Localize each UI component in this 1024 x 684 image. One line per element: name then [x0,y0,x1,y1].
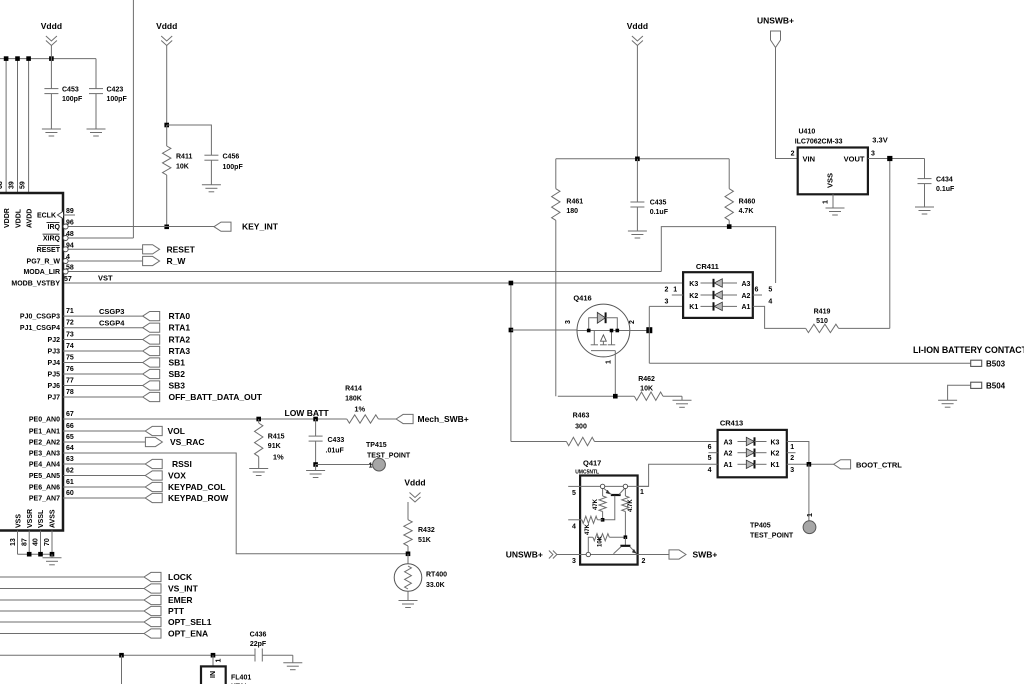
svg-text:76: 76 [66,366,74,373]
svg-text:A2: A2 [742,293,751,300]
svg-text:VDDL: VDDL [15,208,22,228]
resistor R463 [511,441,567,443]
wire VSS [17,531,19,555]
wire XIRQ net [63,237,133,239]
svg-text:RT400: RT400 [426,572,447,579]
svg-text:PJ3: PJ3 [48,349,61,356]
svg-text:SB3: SB3 [169,381,186,391]
svg-text:OPT_ENA: OPT_ENA [168,629,208,639]
svg-text:PE4_AN4: PE4_AN4 [29,462,60,469]
junction R460 [727,224,732,229]
svg-text:RTA0: RTA0 [169,311,191,321]
svg-text:Vddd: Vddd [627,21,648,31]
svg-text:2: 2 [790,455,794,462]
net flag SWB+ [669,550,686,559]
wire VDDR drop [5,59,7,193]
svg-text:Vddd: Vddd [156,21,177,31]
net flag R_W [63,260,143,262]
svg-text:ECLK: ECLK [37,213,56,220]
svg-text:IN: IN [210,671,217,678]
svg-text:4: 4 [708,467,712,474]
ground under C423 [87,128,106,130]
net flag KEYPAD_ROW [63,497,145,499]
svg-text:22pF: 22pF [250,641,267,648]
svg-text:51K: 51K [418,537,431,544]
svg-text:LOW BATT: LOW BATT [285,408,330,418]
resistor R411 [166,125,168,146]
svg-text:5: 5 [708,455,712,462]
svg-text:R463: R463 [573,412,590,419]
svg-text:65: 65 [66,434,74,441]
net flag VOX [63,475,145,477]
wire to C456 [167,125,212,155]
diode CR413 element [738,463,747,465]
svg-text:1: 1 [823,200,830,204]
svg-text:R462: R462 [638,376,655,383]
svg-text:RTA2: RTA2 [169,335,191,345]
wire Q416 pin2 [630,330,650,332]
svg-text:67: 67 [66,411,74,418]
svg-text:70: 70 [44,538,51,546]
svg-text:4.7K: 4.7K [628,499,634,512]
Q417 transistor T2 [624,537,626,545]
wire IRQ to KEY_INT [63,226,214,228]
wire bottom crystal net [0,654,255,656]
resistor R462 [558,395,635,397]
svg-text:TP415: TP415 [366,442,387,449]
ground under C435 [628,230,647,232]
svg-text:VOUT: VOUT [844,155,865,164]
svg-text:PE1_AN1: PE1_AN1 [29,429,60,436]
capacitor C434 [924,159,926,179]
svg-text:62: 62 [66,468,74,475]
svg-text:Vddd: Vddd [41,21,62,31]
svg-text:KEYPAD_COL: KEYPAD_COL [168,482,225,492]
net flag VS_INT [0,588,144,590]
svg-text:3: 3 [572,558,576,565]
svg-text:R411: R411 [176,154,192,161]
svg-text:K3: K3 [771,439,780,446]
svg-text:63: 63 [66,456,74,463]
svg-text:C456: C456 [223,154,240,161]
svg-text:VOL: VOL [168,426,185,436]
svg-text:C453: C453 [62,87,79,94]
svg-text:BOOT_CTRL: BOOT_CTRL [856,460,902,469]
resistor R432 [404,520,412,546]
svg-text:VSS: VSS [826,173,835,188]
svg-text:100pF: 100pF [62,96,83,103]
svg-text:PJ2: PJ2 [48,337,61,344]
svg-text:100pF: 100pF [223,164,244,171]
svg-text:VDDR: VDDR [4,208,11,228]
wire A1 to Q417 pin1 [638,464,718,486]
wire FL401 pin1 [212,655,214,666]
svg-text:TP405: TP405 [750,523,771,530]
svg-text:PJ6: PJ6 [48,383,61,390]
svg-text:1: 1 [369,463,373,470]
svg-text:ILC7062CM-33: ILC7062CM-33 [795,139,843,146]
svg-text:RSSI: RSSI [172,459,192,469]
wire PE3 temp sense [63,453,408,554]
svg-text:PG7_R_W: PG7_R_W [27,259,61,266]
net flag OPT_SEL1 [0,621,144,623]
pin bubbles [63,224,68,229]
junction FL401 [211,653,216,658]
svg-text:CSGP3: CSGP3 [99,307,124,316]
wire to TP405 [808,464,810,520]
wire UNSWB+ to VIN [776,48,798,159]
svg-text:PE0_AN0: PE0_AN0 [29,417,60,424]
ground under U410 [826,207,845,209]
net flag PTT [0,610,144,612]
svg-text:UNSWB+: UNSWB+ [506,550,543,560]
diode array CR413 [718,430,787,477]
svg-text:LOCK: LOCK [168,572,193,582]
svg-text:4: 4 [768,298,772,305]
svg-text:89: 89 [66,208,74,215]
svg-text:CR413: CR413 [720,419,743,428]
svg-text:13: 13 [10,538,17,546]
svg-text:3: 3 [565,320,572,324]
svg-text:5: 5 [768,287,772,294]
svg-text:A3: A3 [724,439,733,446]
Q416 channel [593,331,595,345]
wire AVDD drop [28,59,30,193]
ground under B504 [938,399,957,401]
net flag RSSI [63,463,145,465]
junction bottom left [119,653,124,658]
junction R411 top [164,123,169,128]
svg-text:1: 1 [606,360,613,364]
pin ECLK [63,214,75,216]
svg-text:RESET: RESET [37,247,61,254]
svg-text:73: 73 [66,332,74,339]
svg-text:PE2_AN2: PE2_AN2 [29,440,60,447]
wire K1 horizontal [649,305,683,307]
wire drop to edge [121,655,123,684]
ground IC [51,554,53,558]
ground right of R462 [681,396,683,400]
svg-text:A3: A3 [742,281,751,288]
svg-text:R461: R461 [566,199,583,206]
svg-text:39: 39 [9,181,16,189]
svg-text:100pF: 100pF [107,96,128,103]
net flag LOCK [0,576,144,578]
svg-text:Vddd: Vddd [404,478,425,488]
test point TP405 [803,521,816,534]
wire to Q416 pin3 [511,329,577,331]
svg-text:C423: C423 [107,87,124,94]
svg-text:1%: 1% [273,453,284,462]
Q417 transistor T1 [611,494,621,496]
junction C433 bottom [313,462,318,467]
svg-text:R414: R414 [345,386,362,393]
Q417 pin5 stub [568,485,580,487]
svg-text:OPT_SEL1: OPT_SEL1 [168,617,212,627]
Q417 pin4 stub [568,519,582,521]
resistor R419 [806,324,839,332]
junction R415 top [256,417,261,422]
svg-text:PE6_AN6: PE6_AN6 [29,485,60,492]
svg-text:PJ7: PJ7 [48,395,61,402]
net flag VOL [63,430,145,432]
Q416 pin1 wire [614,351,616,397]
svg-text:SB2: SB2 [169,369,186,379]
svg-text:1: 1 [640,489,644,496]
IC U401 microcontroller body [0,193,63,531]
svg-text:UMC5NTL: UMC5NTL [575,469,599,475]
test point TP415 [373,458,386,471]
svg-text:VS_RAC: VS_RAC [170,437,204,447]
Q416 gate bar [591,350,615,352]
svg-text:CR411: CR411 [696,262,719,271]
wire K3 to K1 node [787,442,809,465]
ground under R415 [249,468,268,470]
svg-text:10K: 10K [598,535,604,547]
svg-text:2: 2 [642,558,646,565]
net flag BOOT_CTRL [834,460,851,469]
thermistor RT400 [407,554,409,564]
svg-text:PE7_AN7: PE7_AN7 [29,496,60,503]
svg-text:OFF_BATT_DATA_OUT: OFF_BATT_DATA_OUT [169,392,263,402]
wire VSSR [28,531,30,555]
svg-text:3: 3 [665,298,669,305]
svg-text:60: 60 [66,490,74,497]
svg-text:TEST_POINT: TEST_POINT [750,533,794,540]
svg-text:57: 57 [64,276,72,283]
transistor Q416 (P-FET) [577,304,630,357]
capacitor C435 [636,159,638,202]
svg-text:66: 66 [66,423,74,430]
CR413 K2 stub [787,452,796,454]
wire Vddd2 down [166,46,168,126]
svg-text:VST: VST [98,274,113,283]
Q416 internal dots [587,329,591,333]
battery contact B504 [971,382,982,388]
diode CR413 element [738,452,747,454]
svg-text:2: 2 [629,320,636,324]
junction Q416 pin1 [613,394,618,399]
svg-text:PE3_AN3: PE3_AN3 [29,451,60,458]
junction VST branch [509,281,514,286]
resistor R461 [555,159,557,189]
svg-text:VS_INT: VS_INT [168,584,199,594]
svg-text:EMER: EMER [168,595,193,605]
svg-text:1: 1 [216,659,223,663]
svg-text:VSSL: VSSL [38,509,45,528]
svg-text:K1: K1 [689,304,698,311]
svg-text:74: 74 [66,343,74,350]
wire R419 up to 3.3V node [889,159,891,329]
capacitor C453 [50,59,52,89]
Q417 pin2 wire [638,554,671,556]
regulator U410 [798,148,868,195]
Q417 resistor 10K [588,537,593,552]
wire ground bus [18,553,53,555]
svg-text:72: 72 [66,320,74,327]
ground under RT400 [399,600,418,602]
wire Vddd center down [636,46,638,159]
svg-text:2: 2 [791,151,795,158]
Q416 body diode [589,318,598,331]
svg-text:10K: 10K [640,386,653,393]
wire LOW BATT (PE0) [63,418,347,420]
Q417 junction node2 [624,535,628,539]
svg-text:VSS: VSS [16,514,23,528]
wire top power rail [0,58,96,60]
svg-text:R415: R415 [268,434,285,441]
svg-text:VIN: VIN [803,155,816,164]
ground under C456 [202,184,221,186]
junction 3.3V node [887,156,892,161]
diode array CR411 [683,272,753,318]
wire K1 to BOOT_CTRL [787,463,834,465]
wire Vddd to rail [50,46,52,59]
junction dots top rail [4,56,9,61]
svg-text:61: 61 [66,479,74,486]
U410 VSS pin [832,194,834,208]
junction R411 bottom [164,225,169,230]
svg-text:XIRQ: XIRQ [43,236,61,243]
capacitor C456 [204,154,218,156]
wire battery B503 net [649,362,970,364]
Q417 pin3 wire [557,554,638,556]
wire MODB_VSTBY / VST net [63,282,683,284]
svg-text:CSGP4: CSGP4 [99,319,125,328]
svg-text:MODA_LIR: MODA_LIR [23,269,60,276]
svg-text:VOX: VOX [168,471,186,481]
svg-text:IRQ: IRQ [48,224,61,231]
junction R432/RT400 [406,552,411,557]
svg-text:1: 1 [807,513,814,517]
svg-text:300: 300 [575,424,587,431]
svg-text:PJ0_CSGP3: PJ0_CSGP3 [20,314,60,321]
svg-text:1: 1 [673,287,677,294]
diode CR413 element [738,441,747,443]
svg-text:PTT: PTT [168,606,185,616]
wire R460 bottom link [661,227,775,283]
wire to TP415 [316,464,373,466]
Q417 resistor 4.7K vertical [622,496,629,512]
ground under C453 [42,128,61,130]
svg-text:91K: 91K [268,443,281,450]
capacitor C423 [95,59,97,89]
svg-text:78: 78 [66,389,74,396]
junction C433 top [313,417,318,422]
diode CR411 element [701,282,714,284]
svg-text:3: 3 [871,151,875,158]
svg-text:FL401: FL401 [231,675,251,682]
svg-text:77: 77 [66,378,74,385]
svg-text:B503: B503 [986,359,1006,368]
svg-text:PJ5: PJ5 [48,372,61,379]
svg-text:0.1uF: 0.1uF [936,186,955,193]
svg-text:47K: 47K [593,498,599,510]
net flag Mech_SWB+ [396,414,413,423]
svg-text:PE5_AN5: PE5_AN5 [29,473,60,480]
svg-text:MODB_VSTBY: MODB_VSTBY [11,281,60,288]
svg-text:1: 1 [790,444,794,451]
svg-text:R432: R432 [418,527,435,534]
net flag KEYPAD_COL [63,486,145,488]
svg-text:RTA1: RTA1 [169,323,191,333]
wire Vddd to R432 [407,502,409,520]
svg-text:71: 71 [66,308,74,315]
diode CR411 element [701,305,714,307]
svg-text:75: 75 [66,355,74,362]
svg-text:6: 6 [708,444,712,451]
crystal filter FL401 [201,666,226,684]
svg-text:K2: K2 [689,293,698,300]
net flag RESET [63,248,143,250]
svg-text:40: 40 [33,538,40,546]
wire MODA_LIR net [63,271,661,273]
svg-text:RESET: RESET [167,244,196,254]
svg-text:64: 64 [66,445,74,452]
Q417 junction pin4 [601,518,605,522]
svg-text:KEY_INT: KEY_INT [242,222,279,232]
svg-text:3: 3 [790,467,794,474]
CR411 pin2 stub [672,294,683,296]
svg-text:TEST_POINT: TEST_POINT [367,453,411,460]
junction Vddd rail [635,157,640,162]
svg-text:2: 2 [665,287,669,294]
svg-text:C434: C434 [936,177,953,184]
svg-text:R419: R419 [814,309,831,316]
net flag OPT_ENA [0,633,144,635]
svg-text:R460: R460 [739,199,756,206]
svg-text:VSSR: VSSR [27,509,34,528]
wire center rail [556,158,729,160]
svg-text:3.3V: 3.3V [872,136,887,145]
net flag KEY_INT [214,222,231,231]
svg-text:Mech_SWB+: Mech_SWB+ [418,414,469,424]
resistor R460 [728,159,730,189]
svg-text:Q416: Q416 [573,293,591,302]
Q417 internal resistor 47K vertical [599,496,606,512]
svg-text:6: 6 [755,287,759,294]
svg-text:Q417: Q417 [583,459,601,468]
wire VOUT 3.3V [868,158,925,160]
svg-text:SB1: SB1 [169,358,186,368]
wire VST branch [510,283,512,442]
svg-text:LI-ION BATTERY CONTACT: LI-ION BATTERY CONTACT [913,345,1024,355]
svg-text:A2: A2 [724,451,733,458]
svg-text:R_W: R_W [167,256,187,266]
capacitor C433 [315,419,317,436]
junction Q416 gate [509,328,514,333]
svg-text:AVSS: AVSS [50,509,57,528]
ground under C434 [915,206,934,208]
svg-text:10K: 10K [176,164,189,171]
Q417 pin connection circles [600,484,604,488]
svg-text:UNSWB+: UNSWB+ [757,16,794,26]
wire A1 to R419 [753,306,806,328]
wire VSSL [40,531,42,555]
svg-text:47K: 47K [585,523,591,535]
svg-text:K3: K3 [689,281,698,288]
capacitor C436 [254,649,256,662]
junction BOOT node [807,462,812,467]
svg-text:510: 510 [816,318,828,325]
svg-text:59: 59 [20,181,27,189]
ground under C433 [306,470,325,472]
Q417 pin4 resistor 47K [582,516,598,523]
resistor R415 [258,419,260,423]
svg-text:C436: C436 [250,632,267,639]
net flag VS_RAC [63,441,146,443]
svg-text:A1: A1 [724,462,733,469]
